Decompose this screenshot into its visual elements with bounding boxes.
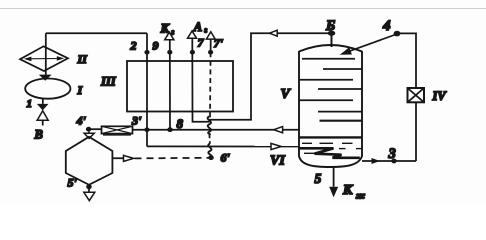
separator bottom open drain arrow — [84, 192, 95, 200]
water-seal squiggle lower — [208, 144, 212, 158]
mixer II internal double arrow — [26, 58, 62, 60]
svg-text:6': 6' — [221, 150, 231, 164]
separator 5' (hexagon) — [66, 137, 113, 185]
section divider of column — [299, 136, 362, 138]
tray 3 — [299, 79, 353, 81]
tray 1 — [302, 58, 355, 60]
svg-text:7: 7 — [198, 35, 205, 49]
open down arrow into separator — [88, 129, 90, 133]
line 3 from column bottom to recycle — [362, 160, 416, 162]
line 2 vertical — [146, 33, 148, 146]
water-seal squiggle upper — [208, 117, 211, 135]
node 3 — [391, 159, 396, 164]
recuperator 3' (box with X) — [102, 126, 133, 133]
return line from Б: horizontal into seal — [210, 33, 332, 120]
arrow on 6' line (open, right) — [124, 155, 134, 161]
svg-text:2: 2 — [130, 38, 137, 52]
tray 2 — [323, 68, 362, 70]
svg-text:г: г — [171, 27, 174, 36]
separator outlet wire to 6' — [112, 157, 123, 159]
svg-text:К: К — [160, 21, 171, 35]
vessel I (ellipse) — [25, 79, 70, 99]
svg-text:В: В — [34, 128, 43, 142]
line B: from line 2 into column coil — [147, 145, 299, 147]
svg-text:II: II — [77, 52, 89, 66]
node Б — [328, 31, 336, 36]
arrow Кж (filled, down) — [329, 187, 338, 198]
line 7' vertical with outlet arrow — [210, 39, 212, 52]
node line A / line 9 — [167, 127, 173, 132]
column top nozzle to Б — [331, 33, 333, 47]
line A: gas from column VI to recuperator — [133, 129, 300, 131]
node 4 — [394, 31, 401, 37]
liquid level dashes — [302, 142, 312, 144]
svg-text:Б: Б — [325, 18, 335, 34]
drain tick to B — [42, 120, 44, 125]
heat exchanger III (rectangle) — [127, 61, 233, 112]
mixer II riser wire — [45, 33, 47, 75]
drain valve open triangle — [37, 111, 48, 121]
svg-text:III: III — [100, 75, 117, 89]
svg-text:К: К — [342, 183, 354, 198]
steam coil zigzag in section VI — [298, 148, 360, 158]
svg-text:А: А — [193, 20, 202, 34]
node 4' — [86, 127, 91, 132]
node 6' — [208, 155, 214, 160]
arrow on line A (open, left) — [274, 127, 283, 133]
svg-text:V: V — [281, 87, 292, 102]
column bottom outlet 5 — [333, 167, 335, 187]
svg-text:4: 4 — [382, 18, 391, 34]
svg-text:3: 3 — [388, 146, 396, 162]
arrow Аг outlet on line 7 (open) — [188, 31, 197, 38]
line 7' dashed drop — [209, 52, 212, 117]
svg-text:5: 5 — [315, 171, 322, 186]
svg-text:5': 5' — [68, 175, 78, 189]
tray 7 bold — [320, 120, 363, 122]
separator bottom node — [88, 185, 90, 192]
svg-text:I: I — [77, 83, 84, 97]
arrow on line B (open, right) — [271, 143, 281, 149]
valve IV (box with X) — [408, 88, 425, 102]
wire: top-left header from mixer II to line 2 — [46, 32, 147, 34]
water-seal dashed mid — [208, 134, 211, 144]
svg-text:3': 3' — [131, 114, 142, 128]
feed 4 diagonal into column — [343, 34, 397, 54]
drain valve filled triangle — [37, 104, 49, 111]
column V shell — [299, 45, 362, 52]
mixer II (diamond) — [20, 46, 68, 71]
svg-text:4': 4' — [76, 113, 87, 127]
drain wire below vessel I — [42, 99, 44, 104]
svg-text:VI: VI — [270, 153, 285, 168]
svg-text:7': 7' — [214, 36, 224, 50]
arrow Кг outlet (open) — [165, 32, 174, 40]
inlet triangle on vessel I — [39, 75, 52, 81]
svg-text:г: г — [204, 25, 207, 34]
tray 6 — [318, 111, 362, 113]
node on line 7 — [190, 50, 195, 55]
faint scan rule at top — [0, 8, 486, 10]
node on line 9 — [167, 50, 172, 55]
svg-text:ж: ж — [356, 192, 365, 202]
tray 5 — [299, 99, 353, 101]
node on line 2 top — [144, 50, 149, 55]
svg-text:1: 1 — [27, 98, 33, 110]
recycle riser wire — [397, 33, 416, 88]
svg-text:8: 8 — [177, 116, 184, 131]
stub from recuperator to node 4' — [89, 128, 102, 130]
arrow on Б return (open, left) — [270, 30, 278, 36]
node line A / line 2 — [144, 127, 149, 132]
arrow on line 3 (filled, right) — [372, 158, 381, 164]
line 9 vertical — [169, 40, 171, 130]
tray 4 — [318, 88, 362, 90]
node on line 7' — [208, 50, 213, 55]
svg-text:IV: IV — [432, 89, 448, 103]
dashed wire to node 6' — [135, 157, 210, 160]
svg-text:9: 9 — [153, 39, 159, 53]
line 7 vertical — [192, 38, 209, 122]
